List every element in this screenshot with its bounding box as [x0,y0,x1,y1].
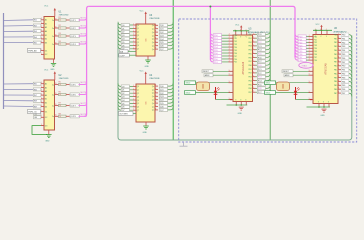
svg-text:15: 15 [55,42,57,44]
svg-text:1k: 1k [60,116,62,118]
svg-text:GND2: GND2 [265,93,270,95]
svg-text:PD4: PD4 [314,48,317,50]
net label box OUT/SER on U4 lower-left pin [119,111,137,115]
U2 lower-left pin stub [41,125,44,127]
svg-text:A2: A2 [45,22,47,25]
svg-text:PB3: PB3 [334,46,337,48]
svg-text:PB4: PB4 [342,81,345,83]
svg-text:R8: R8 [59,113,61,115]
svg-text:PB4: PB4 [334,50,337,52]
U6 right net label boxes [341,33,348,95]
svg-text:OUT/SER: OUT/SER [119,113,128,115]
svg-text:Qa: Qa [152,49,154,51]
svg-text:2: 2 [309,59,310,61]
svg-text:15: 15 [55,26,57,28]
svg-text:Qa: Qa [152,103,154,105]
svg-text:1: 1 [41,26,42,28]
capacitor label box C2 for U6 [265,91,276,95]
svg-text:2Q3: 2Q3 [160,96,164,98]
svg-text:GND2: GND2 [265,83,270,85]
svg-text:VCC: VCC [44,69,49,71]
svg-text:PC1: PC1 [258,69,262,71]
svg-text:PB4: PB4 [248,50,251,52]
svg-text:2a: 2a [52,94,54,96]
svg-text:PWM_CD: PWM_CD [28,112,37,114]
svg-text:PB7: PB7 [334,93,337,95]
resistor R6 row [55,92,88,97]
U5 top VCC wire [233,30,249,32]
svg-text:Q4: Q4 [122,100,125,102]
svg-text:G1: G1 [45,50,48,52]
svg-text:1k: 1k [60,36,62,38]
svg-text:VCC: VCC [44,6,49,8]
svg-text:PB4: PB4 [342,50,345,52]
svg-text:2: 2 [229,43,230,45]
svg-text:Qa: Qa [152,96,154,98]
svg-text:74HC595D: 74HC595D [59,78,69,80]
svg-text:PD1: PD1 [234,62,237,64]
svg-text:2Q0: 2Q0 [160,25,164,27]
svg-text:PC7: PC7 [258,92,262,94]
svg-text:MOT6: MOT6 [81,92,88,94]
U5 left net label boxes [213,34,228,64]
svg-text:2Q5: 2Q5 [160,103,164,105]
svg-text:Qa: Qa [152,25,154,27]
svg-text:PD2: PD2 [234,41,237,43]
svg-text:PB3: PB3 [342,46,345,48]
svg-text:MOT7: MOT7 [81,103,88,105]
svg-text:1: 1 [41,37,42,39]
net label box PWM_CD on U2 pin [28,110,42,114]
svg-text:595: 595 [146,39,148,42]
svg-text:PD1: PD1 [314,39,317,41]
svg-text:PB2: PB2 [342,42,345,44]
U6 left fan wires from magenta bus [295,34,298,60]
svg-text:Q7: Q7 [137,49,139,51]
svg-text:1: 1 [41,105,42,107]
svg-text:IN9: IN9 [34,106,37,108]
svg-text:15: 15 [55,115,57,117]
svg-text:Q1: Q1 [137,28,139,30]
svg-text:15: 15 [55,83,57,85]
svg-text:1: 1 [41,90,42,92]
U3 right pin names [152,25,154,51]
crystal wires for U6 [276,83,314,93]
svg-text:1: 1 [41,34,42,36]
svg-text:Qa: Qa [152,89,154,91]
junction at U5 LED pin [230,99,232,101]
svg-text:Q0: Q0 [137,86,139,88]
svg-text:GND: GND [238,113,243,115]
svg-text:Qa: Qa [152,93,154,95]
svg-text:Q6: Q6 [137,107,139,109]
net label box PWM_AB on U1 pin [28,48,42,52]
resistor R7 row [55,103,88,108]
svg-text:PB1: PB1 [342,38,345,40]
svg-text:PD7: PD7 [314,57,317,59]
svg-text:MOT5: MOT5 [81,82,88,84]
U5 left pin stubs (fan group) [229,34,234,63]
svg-text:PB4: PB4 [334,81,337,83]
svg-text:PB3: PB3 [248,77,251,79]
U6 left pin stubs (fan group) [309,35,314,61]
ground symbol below U6 [320,109,326,117]
U4 bottom pin stub [145,122,147,126]
svg-text:Qa: Qa [152,100,154,102]
svg-text:1: 1 [41,41,42,43]
svg-text:PB6: PB6 [342,89,345,91]
svg-text:PD3: PD3 [234,44,237,46]
ground below U3 [145,60,151,68]
svg-text:PB6: PB6 [248,88,251,90]
svg-text:PD0: PD0 [234,59,237,61]
svg-text:PB1: PB1 [248,38,251,40]
U5 top pin stubs [235,29,248,38]
svg-text:Q3: Q3 [137,35,139,37]
svg-text:2Q2: 2Q2 [160,93,164,95]
svg-text:A4: A4 [45,30,47,33]
svg-text:1k: 1k [60,28,62,30]
U6 right pin names [334,34,337,95]
svg-text:PB1: PB1 [334,38,337,40]
svg-text:PB4: PB4 [248,80,251,82]
svg-text:2: 2 [309,50,310,52]
U2 left pin names [45,83,48,128]
crystal inner mark [282,84,284,89]
svg-text:R3: R3 [59,33,61,35]
svg-text:1: 1 [41,30,42,32]
svg-text:Q3: Q3 [137,96,139,98]
U3 right net label boxes [159,24,167,51]
svg-text:2Q1: 2Q1 [160,89,164,91]
svg-text:Q6: Q6 [122,107,125,109]
svg-text:1k: 1k [60,105,62,107]
LED D for U6 [294,87,300,100]
crystal Y for U5 [197,82,210,91]
U5 left fan wires from magenta bus [210,32,213,62]
wires from left bus to U1 inputs [4,18,42,44]
svg-text:GND2: GND2 [185,93,190,95]
svg-text:PB6: PB6 [334,58,337,60]
svg-text:G3: G3 [45,125,48,127]
svg-text:PB0: PB0 [248,65,251,67]
junction node at bus tee [209,6,211,8]
svg-text:GND: GND [145,66,150,68]
svg-text:Q1: Q1 [122,90,125,92]
U2 bottom pin stub [48,130,50,134]
svg-text:IN1: IN1 [34,20,37,22]
U2 left pin stubs and numbers [41,82,44,126]
svg-text:2: 2 [229,46,230,48]
svg-text:PB7: PB7 [342,62,345,64]
IC U1 74HC595 body [44,17,55,60]
svg-text:2Q4: 2Q4 [160,100,164,102]
bus left vertical x86.6 [84,6,88,116]
svg-text:PB2: PB2 [334,42,337,44]
svg-text:MOT8: MOT8 [81,114,88,116]
wire green bundle vertical x173 to top edge [172,0,174,140]
net flag ellipse XTAL near U6 [299,62,313,68]
svg-text:PB5: PB5 [334,54,337,56]
svg-text:PC6: PC6 [258,57,262,59]
svg-text:Q4: Q4 [137,100,139,102]
power VCC flag above U1 [44,6,56,17]
svg-text:1k: 1k [60,20,62,22]
svg-text:Qa: Qa [152,39,154,41]
svg-text:1: 1 [41,101,42,103]
bus top horizontal y6.4 [89,6,295,57]
U6 top pin stubs [315,29,328,38]
svg-text:PB2: PB2 [334,73,337,75]
svg-text:1: 1 [41,82,42,84]
svg-text:15: 15 [55,18,57,20]
svg-text:Q0: Q0 [137,25,139,27]
net label box OUTP on U3 lower-left pin 2 [119,54,136,58]
resistor R5 row [55,82,88,87]
U5 left pin names (fan group) [234,35,237,64]
svg-text:PC0: PC0 [258,65,262,67]
svg-text:PD1: PD1 [234,38,237,40]
U3 left pin stubs [133,24,136,50]
U5 bottom pin stubs [235,100,247,105]
svg-text:1k: 1k [60,44,62,46]
crystal wires for U5 [196,83,234,93]
svg-text:IN3: IN3 [34,31,37,33]
svg-text:OUT8: OUT8 [71,116,76,118]
U1 left pin names [45,19,48,57]
svg-text:PC0: PC0 [258,34,262,36]
capacitor label box C1 for U6 [265,81,276,85]
svg-text:2a: 2a [52,84,54,86]
svg-text:XTAL1: XTAL1 [302,64,308,67]
svg-text:1: 1 [41,18,42,20]
svg-text:RESET: RESET [283,71,290,73]
crystal inner mark [202,84,204,89]
svg-text:PD0: PD0 [299,60,303,62]
svg-text:Q0: Q0 [122,86,125,88]
svg-text:Qa: Qa [152,86,154,88]
svg-text:IN5: IN5 [34,84,37,86]
svg-text:PB1: PB1 [334,70,337,72]
svg-text:2Q3: 2Q3 [160,35,164,37]
svg-text:PD1: PD1 [214,62,218,64]
svg-text:2: 2 [309,47,310,49]
svg-text:B2: B2 [45,39,47,41]
svg-text:R7: R7 [59,103,61,105]
svg-text:MOT2: MOT2 [81,26,88,28]
svg-text:B3: B3 [45,106,47,108]
LED bottom wire into U5 [216,99,234,101]
svg-text:PD3: PD3 [314,45,317,47]
svg-text:PB5: PB5 [248,84,251,86]
svg-text:Qa: Qa [152,29,154,31]
svg-text:PC3: PC3 [258,77,262,79]
svg-text:1: 1 [41,22,42,24]
U2 right pin names [52,84,54,118]
svg-text:Q2: Q2 [137,93,139,95]
svg-text:2Q4: 2Q4 [160,39,164,41]
svg-text:1: 1 [41,110,42,112]
U6 right fan wires to green bundle [349,35,352,97]
svg-text:MOT3: MOT3 [81,34,88,36]
U4 left pin stubs [133,85,136,111]
svg-text:PWM_AB: PWM_AB [28,49,37,52]
svg-text:AREF: AREF [205,74,211,77]
svg-text:PD6: PD6 [314,54,317,56]
U3 right fan wires to green bundle [168,22,174,49]
U1 left pin stubs and numbers [41,18,44,55]
svg-text:ATMEGA8: ATMEGA8 [325,63,328,75]
svg-text:PC5: PC5 [258,84,262,86]
svg-text:PB7: PB7 [248,92,251,94]
U5 right net label boxes [257,33,265,94]
ground symbol below U2 [45,135,51,143]
svg-text:2Q6: 2Q6 [160,106,164,108]
svg-text:OUT6: OUT6 [71,94,76,96]
U4 right fan wires to green bundle [168,83,174,110]
U4 right net label boxes [159,85,167,112]
svg-text:B3: B3 [45,43,47,45]
U5 right pin names [248,34,251,94]
net label box on U3 lower-left pin [120,50,137,54]
svg-text:GND: GND [50,69,55,71]
wires from left bus to U2 inputs [4,82,42,108]
resistor R2 row [55,25,88,30]
svg-text:GND: GND [143,132,148,134]
svg-text:PB7: PB7 [334,62,337,64]
svg-text:Q0: Q0 [122,25,125,27]
svg-text:OUT4: OUT4 [71,44,76,46]
svg-text:Q6: Q6 [122,45,125,47]
junction at U6 LED pin [310,99,312,101]
svg-text:Q5: Q5 [122,103,125,105]
svg-text:R2: R2 [59,25,61,27]
U3 left fan wires from green bundle [118,22,133,49]
svg-text:74HC595B: 74HC595B [149,18,160,20]
gray port symbol bottom centre [180,143,188,147]
svg-text:IN5: IN5 [34,43,37,45]
svg-text:Q3: Q3 [122,97,125,99]
svg-text:1: 1 [41,86,42,88]
svg-text:PB7: PB7 [342,93,345,95]
power VCC flag above U3 [140,10,147,24]
svg-text:15: 15 [55,93,57,95]
svg-text:2a: 2a [52,28,54,30]
svg-text:2: 2 [309,35,310,37]
crystal Y for U6 [277,82,290,91]
svg-text:PB6: PB6 [334,89,337,91]
wire green bundle vertical x270 to top edge [269,0,271,140]
svg-text:IN6: IN6 [34,89,37,91]
svg-text:2Q5: 2Q5 [160,42,164,44]
dashed selection rectangle [179,19,357,142]
svg-text:2: 2 [229,60,230,62]
svg-text:2Q0: 2Q0 [160,86,164,88]
svg-text:2: 2 [309,44,310,46]
svg-text:2: 2 [229,57,230,59]
svg-text:OUT3: OUT3 [71,36,76,38]
schematic background [0,0,364,150]
net label wires into U6 (upper) [282,70,313,77]
svg-text:PC2: PC2 [258,42,262,44]
svg-text:2: 2 [309,53,310,55]
svg-text:Q1: Q1 [137,90,139,92]
U6 lower-left pin stubs [309,70,314,100]
svg-text:MOT4: MOT4 [81,42,88,44]
svg-text:PB3: PB3 [334,77,337,79]
svg-text:PB0: PB0 [342,66,345,68]
U6 left pin names (fan group) [314,36,317,62]
svg-text:OUT5: OUT5 [71,84,76,86]
svg-text:PC4: PC4 [258,50,262,52]
svg-text:OUT2: OUT2 [71,28,76,30]
U4 right pin stubs [155,85,158,111]
IC U2 body [44,80,55,130]
U4 left pin names [137,86,139,112]
svg-text:PB0: PB0 [334,66,337,68]
resistor R4 row [55,41,88,46]
ground symbol below U5 [238,107,244,115]
svg-text:R6: R6 [59,92,61,94]
wire green bundle loop (left vertical x118, bottom, right vertical x350) [118,23,352,140]
U5 right fan wires to green bundle x270 [266,31,271,92]
resistor R1 row [55,17,88,22]
svg-text:VCC: VCC [235,24,240,26]
svg-text:PD0: PD0 [314,36,317,38]
power VCC flag above U5 [235,24,242,30]
svg-text:PB0: PB0 [334,34,337,36]
svg-text:2a: 2a [52,116,54,118]
svg-text:OUT7: OUT7 [71,105,76,107]
svg-text:PB5: PB5 [342,85,345,87]
svg-text:1: 1 [41,116,42,118]
svg-text:ATMEGA48: ATMEGA48 [242,61,245,74]
svg-text:PD5: PD5 [314,51,317,53]
svg-text:AREF: AREF [285,74,291,77]
svg-text:2: 2 [309,38,310,40]
svg-text:Qa: Qa [152,35,154,37]
U6 top VCC wire [313,30,332,32]
svg-text:PB2: PB2 [342,74,345,76]
svg-text:B2: B2 [45,103,47,105]
svg-text:PC1: PC1 [258,38,262,40]
U3 bottom pin stub [147,56,149,60]
svg-text:Qa: Qa [152,42,154,44]
svg-text:IN7: IN7 [34,95,37,97]
svg-text:PB5: PB5 [334,85,337,87]
svg-text:Q2: Q2 [137,32,139,34]
svg-text:B1: B1 [45,35,47,37]
svg-text:VCC: VCC [140,70,145,72]
svg-text:PD5: PD5 [234,50,237,52]
IC U5 body [233,35,253,102]
svg-text:2Q6: 2Q6 [160,46,164,48]
svg-text:GND: GND [45,141,50,143]
U1 right pin names [52,20,54,46]
svg-text:MOT1: MOT1 [81,18,88,20]
svg-text:2Q7: 2Q7 [160,49,164,51]
svg-text:GND: GND [320,115,325,117]
ground below U1 [50,59,56,71]
resistor R8 row [55,113,88,118]
svg-text:1k: 1k [60,84,62,86]
U4 left net label boxes [121,85,129,112]
svg-text:Q5: Q5 [122,42,125,44]
svg-text:Q1: Q1 [122,28,125,30]
svg-text:1: 1 [41,49,42,51]
svg-text:Qa: Qa [152,32,154,34]
svg-text:15: 15 [55,104,57,106]
